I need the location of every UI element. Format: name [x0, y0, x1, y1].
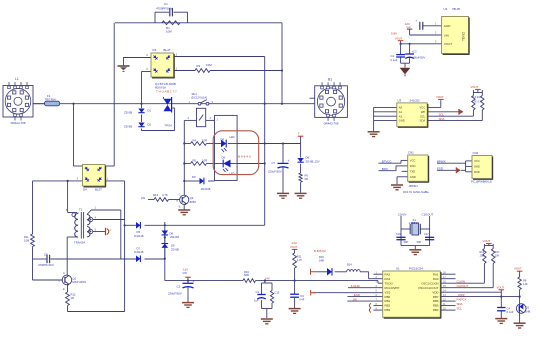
resistor R13 base — [154, 198, 169, 202]
svg-text:R8: R8 — [523, 278, 527, 282]
wire top loop horizontal — [115, 22, 282, 24]
svg-text:T0CKI: T0CKI — [385, 281, 393, 285]
wire pullup top join — [484, 245, 493, 247]
wire transformer secondary pin1 — [91, 209, 121, 211]
svg-text:14V: 14V — [265, 277, 270, 281]
svg-text:VCC: VCC — [410, 159, 416, 163]
resistor R11b — [293, 253, 297, 268]
svg-text:GND: GND — [410, 175, 416, 179]
svg-text:1N4148: 1N4148 — [134, 234, 144, 238]
svg-text:VOUT: VOUT — [444, 42, 453, 46]
diode D7 — [136, 256, 140, 263]
wire PIC pin6 row ESD — [347, 296, 382, 298]
wire CN1 BTVCC row — [379, 162, 402, 164]
crystal X1 — [412, 223, 419, 235]
svg-text:D8: D8 — [221, 138, 225, 142]
svg-text:CLKOUT: CLKOUT — [457, 284, 469, 288]
resistor R5 — [191, 162, 207, 166]
svg-text:10M: 10M — [166, 29, 172, 33]
capacitor C3r 100uF — [405, 53, 414, 55]
svg-text:RXD: RXD — [474, 170, 480, 174]
wire R4 opto row — [184, 143, 190, 145]
zener diode D1 — [138, 109, 144, 113]
svg-text:C15: C15 — [275, 291, 280, 295]
wire bridge1 pin2 right — [174, 56, 265, 58]
svg-text:1N4148: 1N4148 — [170, 235, 180, 239]
svg-text:C4: C4 — [507, 306, 511, 310]
svg-text:R3: R3 — [197, 64, 201, 68]
svg-text:E: E — [179, 205, 181, 209]
nc arrow CN2 — [455, 167, 457, 173]
svg-text:B14: B14 — [347, 263, 352, 267]
wire C9 stem — [294, 281, 296, 295]
wire C3 stem — [409, 44, 411, 54]
bridge rectifier D4 BL2 — [83, 165, 106, 187]
connector CN2 — [472, 156, 492, 179]
svg-text:4.7K 4.7K: 4.7K 4.7K — [472, 101, 483, 104]
red flag zener branch — [298, 135, 304, 137]
diode D5 — [136, 222, 140, 229]
wire PIC right stubs — [440, 273, 455, 275]
svg-text:R13 R14: R13 R14 — [472, 96, 482, 99]
svg-text:+: + — [288, 159, 290, 163]
svg-text:VOUT: VOUT — [483, 239, 491, 243]
svg-text:RB4: RB4 — [433, 308, 439, 312]
svg-text:RA3: RA3 — [385, 277, 391, 281]
svg-text:D9: D9 — [171, 244, 175, 248]
svg-text:30P: 30P — [417, 240, 422, 244]
diode D10 relay loop — [200, 178, 204, 185]
svg-text:A0: A0 — [399, 106, 403, 110]
svg-text:R13: R13 — [153, 193, 159, 197]
inductor L2 — [347, 270, 361, 272]
svg-text:VOUT: VOUT — [436, 95, 444, 99]
svg-text:SDA: SDA — [457, 302, 463, 306]
svg-text:5.8V: 5.8V — [391, 32, 397, 36]
earth ground at bridge pin4 — [123, 57, 125, 66]
svg-text:C1KIN: C1KIN — [398, 213, 407, 217]
svg-text:RA0: RA0 — [433, 277, 439, 281]
wire U3 SCL to R13 — [427, 115, 473, 117]
svg-text:56R: 56R — [244, 273, 249, 277]
svg-text:A1: A1 — [399, 110, 403, 114]
svg-text:SDA: SDA — [439, 117, 445, 121]
svg-text:4.7K: 4.7K — [162, 193, 168, 197]
svg-text:JP0401: JP0401 — [408, 184, 418, 188]
svg-text:RB0: RB0 — [385, 295, 391, 299]
wire C3 11V stem — [187, 281, 189, 284]
svg-text:D1: D1 — [148, 108, 152, 112]
wire Q2 emitter and bottom rail — [67, 285, 69, 293]
wire U3 WP stub — [427, 111, 459, 113]
wire bridge1 pin3 to zener column — [142, 71, 152, 73]
svg-text:VDD: VDD — [432, 290, 438, 294]
svg-text:A2: A2 — [399, 114, 403, 118]
wire bridge1 pin1 through R3 — [174, 70, 195, 72]
svg-text:U3: U3 — [398, 98, 402, 102]
ground C9 — [289, 308, 301, 310]
svg-text:VOUT: VOUT — [395, 36, 403, 40]
wire D5 row — [125, 224, 136, 226]
svg-text:PC_BPWBKKLE: PC_BPWBKKLE — [471, 180, 492, 184]
bridge rectifier D3 BL1 — [151, 53, 174, 77]
wire long bottom row to PIC — [165, 280, 243, 282]
svg-text:54B: 54B — [319, 259, 324, 263]
zener D9b mid column — [162, 244, 169, 248]
svg-text:D5: D5 — [137, 230, 141, 234]
svg-text:SDA: SDA — [420, 119, 426, 123]
svg-text:D4: D4 — [83, 187, 87, 191]
transistor Q2 — [62, 275, 72, 285]
svg-text:4700PF/1KV: 4700PF/1KV — [38, 263, 54, 267]
svg-text:100uF/50V: 100uF/50V — [413, 55, 426, 59]
resistor R14 pullup — [481, 96, 484, 111]
svg-text:SHD: SHD — [474, 165, 480, 169]
svg-text:1uF: 1uF — [254, 298, 259, 302]
wire CN2 rows — [437, 162, 466, 164]
svg-text:E: E — [63, 287, 65, 291]
capacitor C16 — [396, 236, 405, 238]
ground Q4 — [514, 322, 526, 324]
svg-text:C8: C8 — [44, 252, 48, 256]
svg-text:4-612F: 4-612F — [351, 284, 360, 288]
svg-text:DR4A2-T08: DR4A2-T08 — [324, 122, 339, 126]
resistor R12 emitter — [66, 292, 70, 306]
wire PIC pin5 row VSS — [313, 292, 383, 294]
capacitor C4b 1uF — [257, 294, 265, 296]
wire CN1 gnd drop — [397, 176, 408, 178]
svg-text:+: + — [416, 18, 418, 22]
resistor R11 left — [31, 234, 35, 247]
ground C7 — [277, 192, 289, 194]
capacitor C7 — [278, 162, 289, 164]
wire U2 GND pin — [423, 25, 442, 27]
svg-text:R4: R4 — [193, 139, 197, 143]
capacitor C4 — [497, 307, 505, 309]
svg-text:R12: R12 — [71, 293, 76, 297]
svg-text:RB3: RB3 — [385, 308, 391, 312]
svg-text:U2: U2 — [444, 7, 448, 11]
diode D10b — [327, 268, 332, 276]
ground C3 — [182, 302, 194, 304]
svg-text:GND: GND — [444, 24, 452, 28]
resistor R13 pullup — [472, 96, 475, 111]
wire PIC pin7 row JW — [347, 300, 382, 302]
resistor R16 inline — [243, 279, 256, 283]
svg-text:C4: C4 — [256, 290, 260, 294]
svg-text:L1: L1 — [15, 77, 19, 81]
svg-text:TXD: TXD — [410, 170, 415, 174]
resistor R4 — [191, 142, 207, 146]
svg-text:C: C — [179, 193, 181, 197]
svg-text:GND: GND — [399, 119, 405, 123]
svg-text:D3: D3 — [153, 48, 157, 52]
svg-text:OSC2/CLKOUT: OSC2/CLKOUT — [418, 286, 439, 290]
wire Q4 emitter — [519, 316, 521, 323]
svg-text:WDP: WDP — [458, 293, 465, 297]
wire triac gate loop — [172, 107, 175, 109]
wire mid column x164 stub to corner — [164, 222, 166, 281]
svg-text:DC17U 1MHz-NaBle: DC17U 1MHz-NaBle — [403, 190, 429, 194]
svg-text:10K: 10K — [495, 254, 500, 257]
svg-text:T1: T1 — [79, 208, 83, 212]
wire relay coil right pin — [206, 119, 215, 121]
IC U3 24LC02 — [397, 103, 427, 127]
wire C7 stem — [282, 144, 284, 164]
svg-text:220uF/50V: 220uF/50V — [168, 291, 182, 295]
wire crystal bottom join — [401, 245, 430, 247]
svg-text:C17: C17 — [424, 233, 429, 236]
wire D10 row — [184, 180, 199, 182]
svg-text:4.7K: 4.7K — [297, 258, 303, 262]
svg-text:ZD-5B_15V: ZD-5B_15V — [306, 160, 320, 164]
resistor R8 — [518, 277, 521, 290]
svg-text:ZD-5B: ZD-5B — [124, 110, 132, 114]
wire PIC pullup R16 drop — [483, 264, 485, 284]
wire B1 left stub — [310, 97, 315, 99]
capacitor C3 bottom — [183, 282, 194, 284]
svg-text:30P: 30P — [404, 240, 409, 244]
svg-text:C: C — [63, 271, 65, 275]
svg-text:CLKIN: CLKIN — [457, 280, 466, 284]
svg-text:RXPCX: RXPCX — [457, 297, 467, 301]
wire PIC stubs left — [373, 273, 382, 275]
ground 14V node — [261, 318, 273, 320]
wire U2 VOUT rail — [401, 43, 442, 45]
wire left column x32 down — [32, 103, 34, 105]
svg-text:1N4148: 1N4148 — [134, 250, 144, 254]
svg-text:B-B B-K2: B-B B-K2 — [314, 249, 326, 253]
wire vertical left column x115 — [113, 23, 115, 166]
svg-text:0R: 0R — [305, 177, 308, 181]
wire PIC pullup R17 drop — [492, 264, 494, 288]
svg-text:TR/TF04: TR/TF04 — [45, 98, 56, 102]
svg-text:R17: R17 — [495, 251, 500, 254]
wire BL2 left feed — [73, 104, 75, 166]
ground crystal — [409, 249, 421, 251]
svg-text:CN1: CN1 — [408, 150, 414, 154]
optocoupler U4 body — [215, 115, 238, 180]
ground U3 bus — [368, 131, 380, 133]
connector B1 octal socket — [315, 86, 348, 118]
capacitor C1r 0.1uF — [396, 54, 405, 56]
wire PIC pin4 row MCLR — [348, 287, 383, 289]
svg-text:+: + — [193, 279, 195, 283]
nc arrow WP — [458, 109, 460, 115]
svg-text:N A 8 4 U: N A 8 4 U — [238, 154, 251, 158]
svg-text:RA1: RA1 — [433, 272, 439, 276]
wire transformer primary return to Q2 collector — [67, 236, 77, 238]
svg-text:1N4148: 1N4148 — [201, 187, 211, 191]
svg-text:9L4B: 9L4B — [525, 310, 531, 313]
svg-text:TRANS4: TRANS4 — [74, 241, 85, 245]
svg-text:R6: R6 — [305, 173, 309, 177]
svg-text:12V: 12V — [405, 22, 410, 26]
svg-text:ZD-5B: ZD-5B — [124, 124, 132, 128]
svg-text:VOUT: VOUT — [514, 267, 522, 271]
capacitor C9 — [290, 293, 299, 295]
svg-text:VCC: VCC — [474, 159, 480, 163]
resistor R6 — [299, 173, 302, 182]
svg-text:14V: 14V — [292, 241, 297, 245]
svg-text:D2: D2 — [148, 122, 152, 126]
svg-text:R5: R5 — [193, 159, 197, 163]
svg-text:B1: B1 — [328, 77, 332, 81]
wire AC main horizontal — [33, 103, 315, 105]
svg-text:SCL: SCL — [457, 306, 463, 310]
capacitor C17 — [425, 236, 434, 238]
svg-text:C3: C3 — [177, 285, 181, 289]
svg-text:RA2: RA2 — [385, 272, 391, 276]
wire R8 column — [519, 275, 521, 278]
wire crystal left leg — [400, 216, 402, 246]
svg-text:VOUT: VOUT — [471, 85, 479, 89]
svg-text:RB2: RB2 — [385, 304, 391, 308]
wire BL2 bottom left to R11 column — [33, 180, 83, 182]
svg-text:T H U A B 1 7 7: T H U A B 1 7 7 — [156, 90, 177, 94]
capacitor C1 top — [154, 12, 156, 23]
svg-text:WP: WP — [421, 110, 426, 114]
svg-text:VOUT: VOUT — [497, 285, 505, 289]
diode D8b mid column — [162, 231, 169, 235]
opto LED D8 — [215, 143, 222, 145]
wire Q3 collector — [183, 181, 185, 195]
svg-text:0.1uF: 0.1uF — [507, 310, 514, 314]
svg-text:MCLR/VPP: MCLR/VPP — [385, 286, 400, 290]
svg-text:PIC16C54: PIC16C54 — [409, 267, 423, 271]
svg-text:10M: 10M — [24, 238, 30, 242]
resistor R1 — [162, 21, 180, 25]
svg-text:BPWX: BPWX — [437, 160, 446, 164]
wire zener column row — [265, 143, 301, 145]
svg-text:10K: 10K — [480, 254, 485, 257]
resistor R15 — [270, 291, 273, 304]
svg-text:SCL: SCL — [420, 114, 426, 118]
wire R5 opto row — [184, 163, 190, 165]
wire crystal right leg — [429, 216, 431, 246]
svg-text:SCL: SCL — [439, 112, 445, 116]
svg-text:VSS: VSS — [385, 290, 391, 294]
capacitor C8 — [46, 255, 48, 263]
wire fuse leads — [33, 103, 45, 105]
red rotated ground T1 secondary — [104, 231, 106, 233]
svg-text:10R: 10R — [202, 139, 207, 143]
wire vertical x282 top-to-AC — [281, 23, 283, 104]
wire Q2 base — [33, 279, 63, 281]
triac Q1 — [163, 99, 171, 105]
wire U2 VIN pin — [410, 34, 442, 36]
svg-text:B: B — [59, 279, 61, 283]
svg-text:4R: 4R — [71, 296, 74, 300]
wire transformer secondary pin3 to red gnd — [93, 231, 105, 233]
wire 14V R11 column — [294, 251, 296, 254]
wire U3 VCC to VOUT flag — [427, 106, 441, 108]
wire C4 node stem — [500, 297, 502, 308]
resistors R16 R17 pullups — [483, 249, 486, 264]
svg-text:BXD: BXD — [382, 167, 388, 171]
svg-text:D9: D9 — [192, 175, 196, 179]
wire eeprom pullups top join — [473, 92, 482, 94]
wire D10b coil row to PIC pin2 — [316, 271, 327, 273]
svg-text:C1KOUT: C1KOUT — [422, 213, 434, 217]
svg-text:R16: R16 — [244, 270, 249, 274]
wire zener D1 D2 column — [141, 104, 143, 108]
wire C8 row — [33, 258, 48, 260]
regulator U2 78L05 — [442, 17, 469, 54]
svg-text:C7: C7 — [272, 161, 276, 165]
svg-text:ESD: ESD — [354, 293, 360, 297]
relay RL1 contact — [198, 102, 201, 105]
opto LED D9 — [215, 163, 224, 165]
wire 14V node caps — [264, 281, 266, 283]
svg-text:LED: LED — [230, 135, 235, 139]
svg-text:1.9MHz: 1.9MHz — [409, 221, 419, 225]
wire U3 left bus — [374, 106, 397, 108]
red nc marks PIC left — [369, 303, 371, 308]
svg-text:TO-92: TO-92 — [462, 32, 466, 41]
svg-text:(DC12V)(1A): (DC12V)(1A) — [191, 95, 207, 99]
svg-text:TPG4: TPG4 — [165, 124, 173, 128]
svg-text:D15: D15 — [319, 255, 324, 259]
svg-text:VIN: VIN — [183, 271, 187, 275]
svg-text:D7: D7 — [137, 246, 141, 250]
connector L1 octal socket — [3, 86, 33, 118]
svg-text:VCC: VCC — [420, 106, 426, 110]
svg-text:24LC02: 24LC02 — [410, 98, 421, 102]
ground Q3 emitter — [183, 204, 185, 209]
svg-text:ZD-5B: ZD-5B — [171, 247, 179, 251]
transistor Q4 buzzer — [516, 304, 526, 314]
svg-text:OSC1/CLKIN: OSC1/CLKIN — [421, 281, 438, 285]
svg-text:VIN: VIN — [444, 33, 449, 37]
fuse F1 — [45, 101, 60, 106]
svg-text:C1: C1 — [391, 54, 395, 58]
svg-text:RB6: RB6 — [433, 299, 439, 303]
svg-text:R1L: R1L — [24, 235, 29, 239]
wire BL2 bottom right to x124 column — [105, 180, 125, 182]
zener diode D2 — [138, 123, 144, 127]
svg-text:78L05: 78L05 — [452, 7, 460, 11]
ground CN1 — [391, 184, 403, 186]
svg-text:11V: 11V — [183, 267, 188, 271]
svg-text:BTVCC: BTVCC — [382, 159, 392, 163]
svg-text:JW: JW — [353, 297, 357, 301]
svg-text:D8: D8 — [170, 231, 174, 235]
wire PIC RB7 row long to R8 Q4 — [440, 296, 519, 298]
svg-text:MST13001: MST13001 — [72, 280, 86, 284]
svg-text:4700PF/1KV: 4700PF/1KV — [156, 6, 172, 10]
svg-text:RXD: RXD — [410, 164, 416, 168]
svg-text:K4F: K4F — [300, 298, 305, 302]
ground C4 — [495, 318, 507, 320]
connector CN1 — [408, 155, 428, 181]
wire PIC VDD row to C4 node — [440, 291, 501, 293]
svg-text:220uF/50V: 220uF/50V — [268, 170, 282, 174]
wire C1 stem — [400, 44, 402, 55]
svg-text:U1: U1 — [396, 267, 400, 271]
svg-text:0.1uF: 0.1uF — [391, 58, 398, 62]
wire reg cap bottom join — [401, 62, 410, 64]
wire transformer primary feed — [67, 181, 69, 213]
svg-text:RB7: RB7 — [433, 295, 439, 299]
wire transformer secondary pin4 — [93, 219, 125, 221]
ground regulator — [400, 68, 411, 75]
svg-text:14K: 14K — [523, 282, 528, 286]
wire U3 SDA to R14 — [427, 120, 482, 122]
svg-text:D9: D9 — [222, 155, 226, 159]
svg-text:ESD: ESD — [437, 167, 443, 171]
zener D6 — [297, 158, 303, 162]
